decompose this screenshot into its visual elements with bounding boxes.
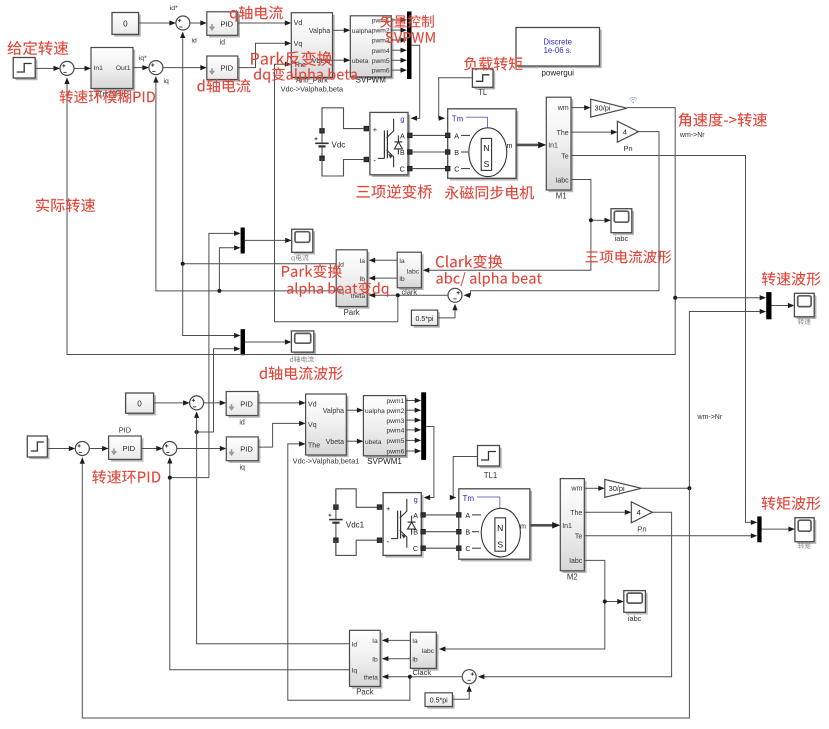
annotation 三项电流波形 xyxy=(586,250,672,264)
svg-text:iq*: iq* xyxy=(139,55,147,62)
svg-text:S: S xyxy=(484,159,490,169)
subsystem SVPWM1 xyxy=(363,396,408,466)
wire pwm3 to mux (bottom) xyxy=(406,418,422,423)
wire mux to inverter g xyxy=(411,45,420,121)
wire Pack Iq to S2b and up xyxy=(167,457,349,670)
sum S1 speed error (top) xyxy=(60,61,74,75)
svg-text:labc: labc xyxy=(407,269,420,276)
mux torque scope xyxy=(757,516,761,542)
signal logging antenna badge xyxy=(630,97,638,103)
svg-text:Pack: Pack xyxy=(356,688,373,697)
wire pwm2 to mux (bottom) xyxy=(406,408,422,413)
annotation Park变换 xyxy=(282,264,342,278)
annotation 永磁同步电机 xyxy=(445,186,534,200)
svg-text:iq: iq xyxy=(239,465,245,472)
svg-text:+: + xyxy=(386,504,390,513)
svg-text:pwm5: pwm5 xyxy=(386,438,404,445)
sum S3 id error (top) xyxy=(176,16,190,30)
wire phase B inverter to motor xyxy=(412,151,446,153)
scope d轴电流 xyxy=(290,331,316,363)
wire d-mux to scope d轴电流 xyxy=(245,339,291,344)
svg-text:C: C xyxy=(400,165,405,174)
svg-text:m: m xyxy=(507,141,513,150)
svg-text:Pn: Pn xyxy=(637,524,646,533)
svg-text:pwm1: pwm1 xyxy=(386,398,404,405)
wire Vbeta to ubeta xyxy=(333,58,351,63)
gain 30/pi (bottom) xyxy=(605,479,641,497)
svg-text:In1: In1 xyxy=(562,523,572,530)
annotation 负载转矩 xyxy=(464,57,523,71)
step source TL1 load torque xyxy=(478,446,502,480)
svg-text:pwm4: pwm4 xyxy=(372,48,390,55)
svg-text:0.5*pi: 0.5*pi xyxy=(416,316,434,323)
PID controller iq (bottom) xyxy=(226,437,260,472)
svg-text:wm: wm xyxy=(570,486,582,493)
wire Pack Id to S3b and up xyxy=(194,411,350,643)
subsystem FuzzyPID xyxy=(91,48,135,99)
svg-text:PID: PID xyxy=(221,19,234,28)
sum S1b speed error (bottom) xyxy=(75,442,89,456)
step source 给定转速 xyxy=(13,58,37,81)
subsystem Clark transform (top) xyxy=(397,252,423,296)
subsystem SVPWM xyxy=(350,16,393,85)
label iq xyxy=(164,78,170,85)
annotation abc/ alpha beat xyxy=(436,272,542,287)
svg-text:TL: TL xyxy=(478,88,488,97)
svg-text:In1: In1 xyxy=(548,143,558,150)
svg-text:iq: iq xyxy=(164,78,170,85)
svg-text:iabc: iabc xyxy=(615,234,629,243)
svg-text:N: N xyxy=(483,143,489,153)
annotation Park反变换 xyxy=(251,51,332,66)
sum S2 iq error (top) xyxy=(149,61,163,75)
svg-text:0.5*pi: 0.5*pi xyxy=(430,698,448,705)
svg-text:The: The xyxy=(557,130,569,137)
wire TL1 to motor Tm (bottom) xyxy=(450,457,478,501)
constant 0 (id* top) xyxy=(112,13,141,37)
svg-text:-: - xyxy=(387,536,390,546)
svg-text:In1: In1 xyxy=(94,65,104,72)
wire motor m to M1 In1 (bus) xyxy=(516,142,546,149)
wire battery minus loop (bottom) xyxy=(336,540,377,555)
svg-text:C: C xyxy=(413,544,418,553)
svg-text:A: A xyxy=(400,131,405,140)
wire pwm1 to mux xyxy=(391,17,407,22)
wire S3 to PID id xyxy=(190,20,207,25)
svg-text:SVPWM1: SVPWM1 xyxy=(367,457,402,466)
wire M1 wm to 30/pi xyxy=(571,105,591,110)
svg-text:Vq: Vq xyxy=(294,39,303,48)
wire S3b to PID id (bottom) xyxy=(204,400,227,405)
svg-text:pwm4: pwm4 xyxy=(386,428,404,435)
annotation Clark变换 xyxy=(436,254,503,268)
svg-text:M1: M1 xyxy=(556,192,567,201)
svg-text:Vdc->Valphab,beta1: Vdc->Valphab,beta1 xyxy=(293,456,360,465)
svg-text:m: m xyxy=(520,521,526,530)
wire Clack la to Pack Ia xyxy=(382,638,411,643)
svg-text:Iq: Iq xyxy=(352,668,358,675)
annotation 实际转速 xyxy=(36,198,95,212)
wire PID iq to Vq (bottom) xyxy=(258,421,305,447)
wire 0 to S3 (id*) xyxy=(139,5,178,26)
svg-text:theta: theta xyxy=(364,675,379,682)
svg-text:pwm3: pwm3 xyxy=(386,418,404,425)
svg-text:la: la xyxy=(412,638,418,645)
wire PID id to Vd xyxy=(238,20,291,25)
subsystem Anti_Park Vdc->Valphab,beta xyxy=(281,13,344,94)
svg-text:Tm: Tm xyxy=(452,114,464,123)
svg-text:theta: theta xyxy=(351,293,366,300)
DC voltage source Vdc1 xyxy=(328,489,364,556)
svg-text:Vd: Vd xyxy=(294,18,303,27)
annotation dq变alpha beta xyxy=(254,67,357,83)
wire theta sum to Pack theta and The (bottom) xyxy=(288,441,462,700)
measurement demux M2 xyxy=(560,479,586,582)
label wm->Nr (bottom) xyxy=(697,414,723,421)
svg-text:ubeta: ubeta xyxy=(365,439,382,446)
PID controller id (bottom) xyxy=(226,392,260,427)
wire M1 Te down to torque mux xyxy=(571,156,757,526)
wire Valpha to ualpha xyxy=(333,28,351,33)
wire phase C inverter to motor xyxy=(412,168,446,170)
mux q-current scope xyxy=(241,228,245,254)
svg-text:N: N xyxy=(497,523,503,533)
wire phase A (bottom) xyxy=(425,514,456,516)
wire pwm2 to mux xyxy=(391,28,407,33)
svg-text:ubeta: ubeta xyxy=(352,58,369,65)
wire step to S1 xyxy=(35,66,60,71)
svg-text:C: C xyxy=(454,165,459,174)
three-phase inverter bridge (top) xyxy=(364,112,412,177)
annotation 转速波形 xyxy=(762,272,821,286)
wire phase B (bottom) xyxy=(425,531,456,533)
svg-text:The: The xyxy=(570,510,582,517)
svg-text:A: A xyxy=(413,511,418,520)
wire pwm3 to mux xyxy=(391,37,407,42)
PID controller speed (bottom) xyxy=(109,425,144,461)
mux d-current scope xyxy=(241,329,245,355)
svg-text:4: 4 xyxy=(637,508,641,517)
svg-text:Vd: Vd xyxy=(308,399,317,408)
svg-text:pwm5: pwm5 xyxy=(372,58,390,65)
svg-text:id*: id* xyxy=(170,5,178,12)
svg-text:labc: labc xyxy=(422,648,435,655)
gain 30/pi (top) xyxy=(591,99,627,117)
measurement demux M1 xyxy=(546,97,573,200)
svg-text:wm: wm xyxy=(557,105,569,112)
wire 0.5*pi to theta sum (bottom) xyxy=(452,685,471,699)
wire speed mux to scope 转速 xyxy=(772,303,795,308)
svg-text:lb: lb xyxy=(412,657,418,664)
sum theta+0.5pi (top) xyxy=(448,288,462,302)
svg-text:powergui: powergui xyxy=(541,68,574,77)
wire pwm5 to mux (bottom) xyxy=(406,438,422,443)
svg-text:B: B xyxy=(465,528,470,537)
three-phase inverter bridge (bottom) xyxy=(377,493,425,558)
svg-text:0: 0 xyxy=(123,20,128,29)
svg-text:Park: Park xyxy=(344,308,360,317)
svg-text:Vbeta: Vbeta xyxy=(326,439,344,446)
wire phase C (bottom) xyxy=(425,547,456,549)
wire PID id to Vd (bottom) xyxy=(258,400,306,405)
wire M2 The to Pn (bottom) xyxy=(584,510,631,515)
svg-text:pwm6: pwm6 xyxy=(386,449,404,456)
wire pwm1 to mux (bottom) xyxy=(406,398,422,403)
wire M2 Iabc to iabc scope and Clack labc xyxy=(439,560,624,651)
wire bottom iq up to q-mux input1 xyxy=(209,231,241,478)
label wm->Nr (top) xyxy=(679,132,705,139)
wire 0.5*pi to theta sum (top) xyxy=(438,304,458,318)
wire torque mux to scope 转矩 xyxy=(762,527,795,532)
svg-text:SVPWM: SVPWM xyxy=(356,76,387,85)
wire 0 to S3b xyxy=(154,400,190,405)
svg-text:PID: PID xyxy=(240,399,253,408)
wire Park Id to S3 and d-mux xyxy=(180,32,336,339)
powergui block xyxy=(516,28,602,78)
subsystem Park transform (top) xyxy=(336,250,369,317)
DC voltage source Vdc xyxy=(315,108,346,176)
annotation 转速环PID xyxy=(92,470,160,484)
svg-text:iabc: iabc xyxy=(628,614,642,623)
step source (bottom speed ref) xyxy=(27,436,49,459)
annotation d轴电流 xyxy=(197,79,250,93)
svg-text:PID: PID xyxy=(221,64,234,73)
wire Pn out to theta sum (top) xyxy=(464,132,660,298)
wire pwm6 to mux (bottom) xyxy=(406,448,422,453)
subsystem Pack (bottom Park) xyxy=(350,630,383,696)
wire clark la to Park Ia xyxy=(369,258,398,263)
svg-text:Te: Te xyxy=(561,153,569,160)
wire M1 The to Pn xyxy=(571,130,617,135)
wire Pn out to theta sum (bottom) xyxy=(478,512,672,679)
svg-text:Tm: Tm xyxy=(463,494,475,503)
annotation alpha beat变dq xyxy=(287,282,388,297)
annotation q轴电流 xyxy=(230,6,283,22)
wire theta sum to Park theta and Anti_Park The xyxy=(275,62,449,322)
PID controller iq (top) xyxy=(207,56,240,82)
annotation d轴电流波形 xyxy=(260,366,343,380)
svg-text:Vdc: Vdc xyxy=(332,140,346,149)
svg-text:PID: PID xyxy=(123,444,136,453)
scope q电流 xyxy=(291,229,315,262)
svg-text:Te: Te xyxy=(575,534,583,541)
svg-text:lb: lb xyxy=(399,276,405,283)
svg-text:Pn: Pn xyxy=(623,144,632,153)
svg-text:1e-06 s.: 1e-06 s. xyxy=(544,46,572,55)
sum S3b id error (bottom) xyxy=(190,396,204,410)
svg-text:Ia: Ia xyxy=(359,258,365,265)
wire Park Iq to S2 and q-mux xyxy=(153,76,336,293)
wire 30/pi out to speed mux and S1 feedback (Nr top) xyxy=(64,78,766,355)
svg-text:Iabc: Iabc xyxy=(569,558,583,565)
gain Pn = 4 (top) xyxy=(617,121,638,153)
svg-text:0: 0 xyxy=(137,400,142,409)
wire S1 to FuzzyPID In1 xyxy=(74,66,91,71)
wire phase A inverter to motor xyxy=(412,134,446,136)
annotation 转矩波形 xyxy=(762,496,821,510)
svg-text:+: + xyxy=(373,125,377,134)
PMSM motor block (bottom) xyxy=(457,489,532,562)
wire pwm4 to mux (bottom) xyxy=(406,427,422,432)
wire S2 to PID iq xyxy=(163,65,207,70)
svg-text:A: A xyxy=(465,511,470,520)
svg-text:Valpha: Valpha xyxy=(309,28,330,35)
wire motor m to M2 In1 (bus) xyxy=(530,522,560,529)
svg-text:ualpha: ualpha xyxy=(352,28,372,35)
wire S2b to PID iq (bottom) xyxy=(177,446,227,451)
wire pwm6 to mux xyxy=(391,68,407,73)
svg-text:la: la xyxy=(399,258,405,265)
wire 30/pi out to junction (bottom Nr) xyxy=(80,457,692,718)
mux PWM (top) xyxy=(407,12,412,80)
wire PID speed to S2b xyxy=(141,446,163,451)
constant 0.5*pi (top) xyxy=(411,310,440,328)
svg-text:A: A xyxy=(454,131,459,140)
PID controller id (top) xyxy=(207,12,240,47)
svg-text:B: B xyxy=(454,148,459,157)
annotation SVPWM red xyxy=(386,32,435,43)
wire bottom Nr up to speed mux input2 xyxy=(689,309,766,488)
wire battery minus loop xyxy=(322,158,364,176)
wire pwm5 to mux xyxy=(391,58,407,63)
svg-text:Ia: Ia xyxy=(372,638,378,645)
wire bottom id up to d-mux input2 xyxy=(195,346,241,434)
svg-text:TL1: TL1 xyxy=(484,471,497,480)
scope iabc (top) xyxy=(611,209,634,243)
wire Clack lb to Pack Ib xyxy=(382,656,411,661)
svg-text:wm->Nr: wm->Nr xyxy=(697,414,723,421)
svg-text:Clack: Clack xyxy=(413,668,432,677)
sum S2b iq error (bottom) xyxy=(163,442,177,456)
svg-text:Iabc: Iabc xyxy=(555,177,569,184)
svg-text:ualpha: ualpha xyxy=(365,408,385,415)
wire clark lb to Park Ib xyxy=(369,276,398,281)
svg-text:g: g xyxy=(400,115,404,124)
svg-text:id: id xyxy=(239,419,245,426)
annotation 给定转速 xyxy=(8,41,69,55)
svg-text:id: id xyxy=(220,40,226,47)
svg-text:Vq: Vq xyxy=(308,420,317,429)
svg-text:30/pi: 30/pi xyxy=(609,484,625,493)
wire battery plus loop xyxy=(322,108,364,131)
label id xyxy=(192,38,198,45)
scope iabc (bottom) xyxy=(624,591,648,623)
mux speed scope xyxy=(766,292,771,319)
svg-text:The: The xyxy=(308,440,320,449)
scope 转矩 (torque) xyxy=(795,518,816,549)
wire mux to inverter g (bottom) xyxy=(424,427,434,501)
step source TL load torque xyxy=(472,69,495,97)
svg-text:Vdc1: Vdc1 xyxy=(346,521,365,530)
svg-text:Id: Id xyxy=(352,642,358,649)
svg-text:Ib: Ib xyxy=(372,657,378,664)
PMSM motor block (top) xyxy=(446,109,519,181)
svg-text:Discrete: Discrete xyxy=(543,37,572,46)
svg-text:PID: PID xyxy=(119,425,131,434)
wire q-mux to scope q电流 xyxy=(245,238,292,243)
svg-text:4: 4 xyxy=(623,128,627,137)
wire M2 wm to 30/pi (bottom) xyxy=(584,486,605,491)
svg-text:Out1: Out1 xyxy=(116,65,131,72)
wire TL to motor Tm xyxy=(439,78,473,121)
svg-text:C: C xyxy=(465,544,470,553)
svg-text:id: id xyxy=(192,38,198,45)
mux PWM (bottom) xyxy=(421,392,426,460)
wire battery plus loop (bottom) xyxy=(336,489,377,508)
svg-text:PID: PID xyxy=(240,445,253,454)
annotation 转速环模糊PID xyxy=(60,90,156,104)
svg-text:B: B xyxy=(400,148,405,157)
wire S1b to PID speed xyxy=(89,446,108,451)
wire M1 Iabc to iabc scope and clark labc xyxy=(423,180,611,273)
svg-text:B: B xyxy=(413,528,418,537)
svg-text:pwm2: pwm2 xyxy=(386,408,404,415)
subsystem Vdc->Valphab,beta1 (bottom anti-Park) xyxy=(293,394,360,465)
annotation 三项逆变桥 xyxy=(357,184,433,198)
wire PID iq to Vq xyxy=(238,41,291,68)
wire iq* FuzzyPID Out1 to S2 xyxy=(133,55,149,70)
svg-text:pwm6: pwm6 xyxy=(372,68,390,75)
svg-text:30/pi: 30/pi xyxy=(594,104,610,113)
sum theta+0.5pi (bottom) xyxy=(462,670,476,684)
svg-text:-: - xyxy=(373,155,376,165)
svg-text:g: g xyxy=(414,495,418,504)
wire Valpha to ualpha (bottom) xyxy=(346,408,363,413)
svg-text:Valpha: Valpha xyxy=(323,408,344,415)
svg-text:wm->Nr: wm->Nr xyxy=(679,132,705,139)
svg-text:S: S xyxy=(497,540,503,550)
constant 0.5*pi (bottom) xyxy=(425,693,455,709)
wire Vbeta to ubeta (bottom) xyxy=(346,439,363,444)
annotation 矢量控制 xyxy=(380,15,434,28)
svg-text:Vdc->Valphab,beta: Vdc->Valphab,beta xyxy=(281,85,344,94)
wire step to S1b xyxy=(47,446,75,451)
subsystem Clack (bottom Clark) xyxy=(410,632,438,677)
annotation 角速度->转速 xyxy=(678,113,767,127)
wire pwm4 to mux xyxy=(391,48,407,53)
wire M2 Te to torque mux xyxy=(584,533,757,538)
scope 转速 (speed) xyxy=(794,293,816,324)
constant 0 (id* bottom) xyxy=(126,393,156,415)
gain Pn = 4 (bottom) xyxy=(631,502,652,534)
svg-text:M2: M2 xyxy=(567,573,578,582)
